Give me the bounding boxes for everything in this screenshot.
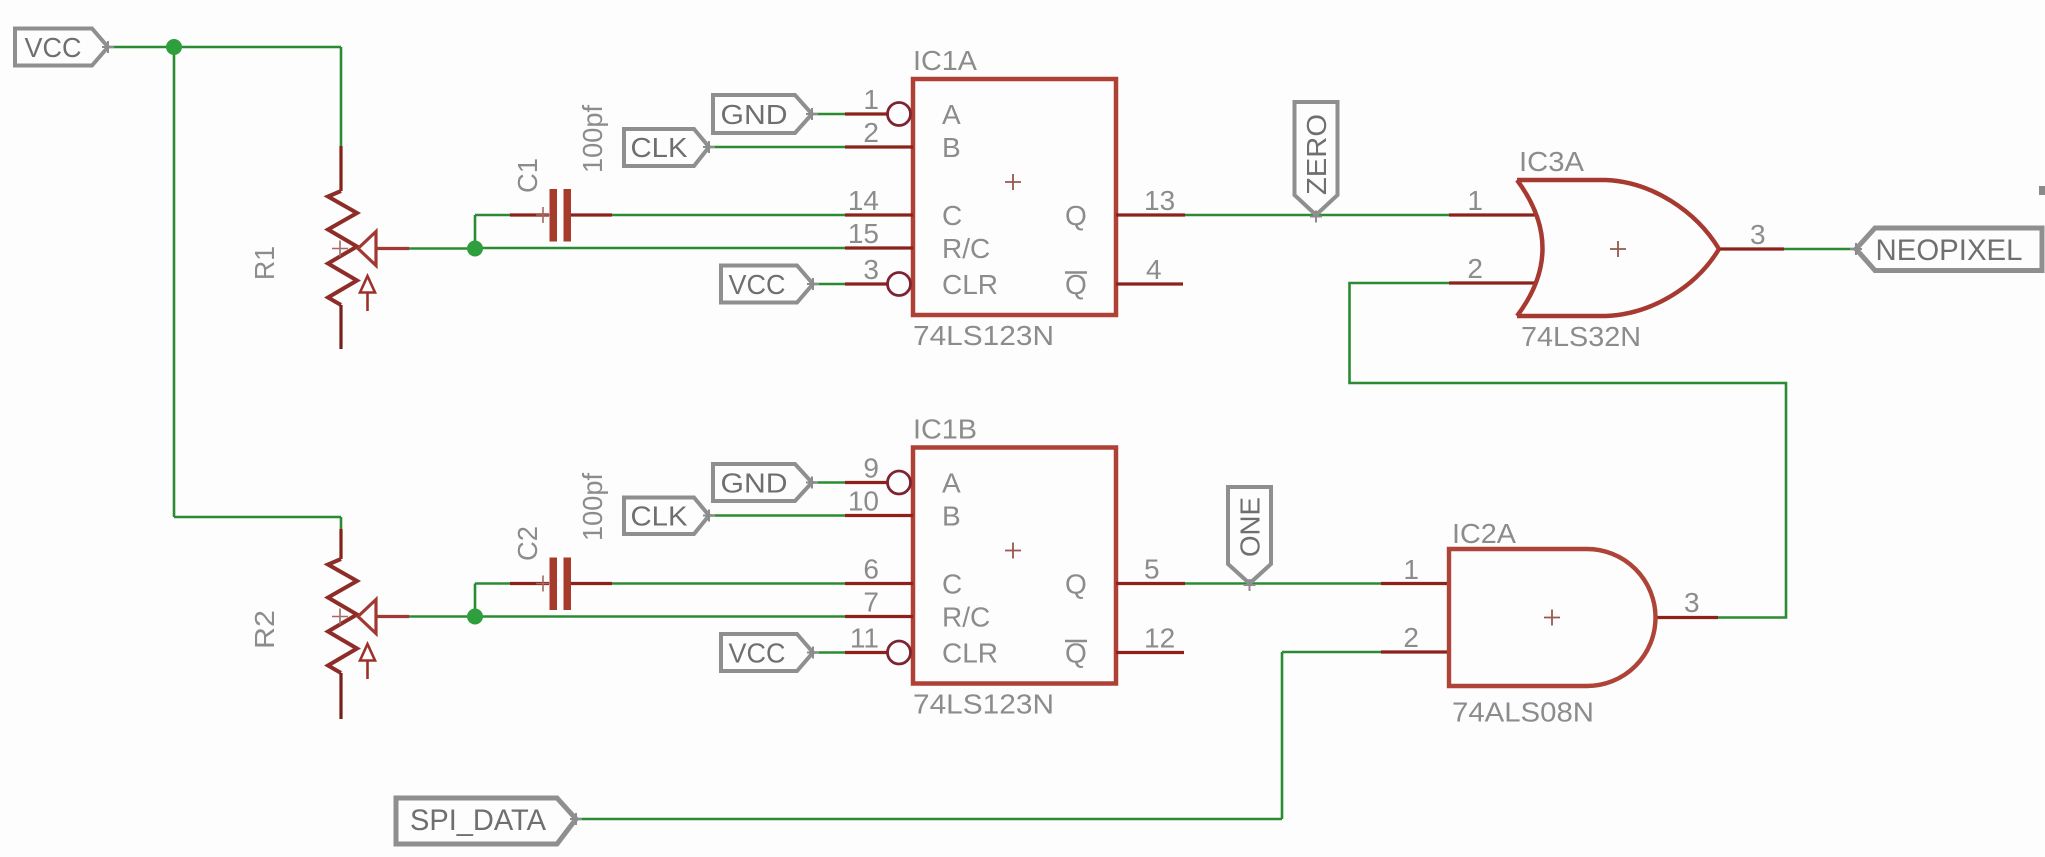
- wire net N$2: junction to IC1B pin R/C: [475, 615, 845, 618]
- svg-text:1: 1: [1467, 185, 1483, 216]
- wire net N$3: IC2A output route to IC3A pin 2: [1350, 283, 1787, 618]
- svg-text:C: C: [942, 569, 962, 600]
- svg-text:SPI_DATA: SPI_DATA: [410, 804, 546, 837]
- svg-text:15: 15: [848, 218, 879, 249]
- svg-text:GND: GND: [721, 99, 788, 130]
- wire net ONE: IC1B Q to IC2A pin 1: [1185, 582, 1381, 585]
- screen artifact at right edge: [2039, 186, 2045, 195]
- resistor R1 (trimmer): [328, 146, 409, 349]
- wire net VCC: VCC flag to IC1A pin 3: [813, 283, 845, 286]
- net flag ONE (vertical, on IC1B Q net): [1228, 487, 1271, 591]
- wire net N$2: junction up to C2 row: [474, 584, 477, 617]
- IC U1A monostable 74LS123N (IC1A): [845, 79, 1185, 315]
- wire net N$1: C1 right to IC1A pin C: [612, 214, 845, 217]
- ground flag GND (IC1B pin 9): [713, 464, 818, 501]
- svg-text:1: 1: [863, 84, 879, 115]
- svg-text:12: 12: [1144, 623, 1175, 654]
- svg-text:IC1A: IC1A: [913, 45, 977, 76]
- svg-text:A: A: [942, 99, 961, 130]
- wire net N$1: junction to IC1A pin R/C: [475, 247, 845, 250]
- svg-text:6: 6: [863, 554, 879, 585]
- svg-text:R1: R1: [249, 246, 280, 280]
- svg-text:2: 2: [1403, 622, 1419, 653]
- svg-text:R2: R2: [249, 610, 280, 649]
- wire net N$1: junction up to C1 row: [474, 215, 477, 249]
- svg-text:B: B: [942, 501, 961, 532]
- wire net VCC: flag to corner above R1: [108, 46, 341, 49]
- svg-text:100pf: 100pf: [577, 473, 608, 541]
- svg-text:GND: GND: [721, 468, 788, 499]
- svg-text:NEOPIXEL: NEOPIXEL: [1876, 234, 2023, 267]
- svg-text:2: 2: [863, 117, 879, 148]
- wire net VCC: VCC flag to IC1B pin 11: [813, 651, 845, 654]
- svg-text:CLR: CLR: [942, 638, 998, 669]
- svg-text:4: 4: [1146, 254, 1162, 285]
- OR gate IC3A 74LS32N: [1449, 180, 1784, 316]
- wire net GND: GND flag to IC1B pin 9: [812, 481, 845, 484]
- svg-text:7: 7: [863, 587, 879, 618]
- svg-text:CLK: CLK: [631, 132, 688, 163]
- svg-text:C1: C1: [512, 158, 543, 193]
- svg-text:IC2A: IC2A: [1452, 518, 1516, 549]
- svg-text:VCC: VCC: [729, 269, 786, 300]
- wire net N$1: R1 wiper to junction: [409, 247, 475, 250]
- ground flag GND (IC1A pin 1): [713, 95, 818, 133]
- svg-text:Q: Q: [1065, 200, 1087, 231]
- svg-text:Q: Q: [1065, 569, 1087, 600]
- power flag VCC (IC1A pin 3): [721, 266, 819, 303]
- junction on VCC net at top left: [166, 39, 182, 55]
- wire net N$2: C2 right to IC1B pin C: [612, 582, 845, 585]
- svg-text:74ALS08N: 74ALS08N: [1452, 697, 1594, 728]
- wire net VCC: vertical from junction down: [173, 47, 176, 517]
- svg-text:3: 3: [1684, 587, 1700, 618]
- wire net VCC: corner down to R1 top: [340, 47, 343, 146]
- wire net N$2: R2 wiper to junction: [409, 615, 475, 618]
- svg-text:C2: C2: [512, 526, 543, 561]
- junction on R1 wiper net: [467, 241, 483, 257]
- svg-text:ZERO: ZERO: [1301, 114, 1332, 195]
- svg-text:3: 3: [863, 254, 879, 285]
- svg-text:VCC: VCC: [729, 638, 786, 669]
- net flag CLK (IC1B pin 10): [624, 498, 715, 535]
- resistor R2 (trimmer): [328, 529, 409, 719]
- power flag VCC (IC1B pin 11): [721, 634, 819, 671]
- svg-text:R/C: R/C: [942, 233, 990, 264]
- capacitor C1: [510, 189, 612, 242]
- svg-text:10: 10: [848, 486, 879, 517]
- svg-text:13: 13: [1144, 185, 1175, 216]
- svg-text:B: B: [942, 132, 961, 163]
- svg-text:C: C: [942, 200, 962, 231]
- AND gate IC2A 74ALS08N: [1381, 549, 1718, 686]
- wire net SPI_DATA: to IC2A pin 2 lead: [1282, 651, 1381, 654]
- svg-text:100pf: 100pf: [577, 105, 608, 173]
- net flag CLK (IC1A pin 2): [624, 129, 715, 166]
- wire net VCC: short drop to R2 top: [340, 517, 343, 530]
- svg-text:IC3A: IC3A: [1519, 146, 1584, 177]
- svg-text:VCC: VCC: [25, 32, 82, 63]
- wire net GND: GND flag to IC1A pin 1: [812, 113, 845, 116]
- svg-text:1: 1: [1403, 554, 1419, 585]
- svg-text:74LS123N: 74LS123N: [913, 689, 1054, 720]
- svg-text:11: 11: [850, 623, 879, 654]
- wire net VCC: horizontal to R2 column: [174, 516, 341, 519]
- wire net NEOPIXEL: IC3A output to flag: [1784, 248, 1856, 251]
- svg-text:R/C: R/C: [942, 602, 990, 633]
- svg-text:14: 14: [848, 185, 879, 216]
- svg-text:2: 2: [1467, 253, 1483, 284]
- wire net ZERO: IC1A Q to IC3A pin 1: [1185, 214, 1449, 217]
- net flag SPI_DATA (bottom): [396, 798, 582, 844]
- wire net CLK: CLK flag to IC1B pin 10: [709, 514, 845, 517]
- junction on R2 wiper net: [467, 609, 483, 625]
- svg-text:ONE: ONE: [1235, 497, 1266, 557]
- net flag ZERO (vertical, on IC1A Q net): [1295, 102, 1338, 223]
- power flag VCC (top left): [15, 29, 114, 66]
- wire net SPI_DATA: riser to IC2A pin 2: [1281, 652, 1284, 819]
- wire net N$1: to C1 left lead: [475, 214, 510, 217]
- wire net N$2: to C2 left lead: [475, 582, 510, 585]
- wire net SPI_DATA: flag to corner: [577, 818, 1282, 821]
- svg-text:3: 3: [1750, 219, 1766, 250]
- net flag NEOPIXEL (right, points left): [1850, 228, 2042, 271]
- svg-text:IC1B: IC1B: [913, 414, 977, 445]
- svg-text:CLR: CLR: [942, 269, 998, 300]
- IC U1B monostable 74LS123N (IC1B): [845, 448, 1185, 684]
- svg-text:CLK: CLK: [631, 501, 688, 532]
- svg-text:74LS32N: 74LS32N: [1521, 321, 1641, 352]
- wire net CLK: CLK flag to IC1A pin 2: [709, 146, 845, 149]
- svg-text:A: A: [942, 468, 961, 499]
- capacitor C2: [510, 558, 612, 611]
- svg-text:9: 9: [863, 453, 879, 484]
- svg-text:74LS123N: 74LS123N: [913, 320, 1054, 351]
- svg-text:5: 5: [1144, 554, 1160, 585]
